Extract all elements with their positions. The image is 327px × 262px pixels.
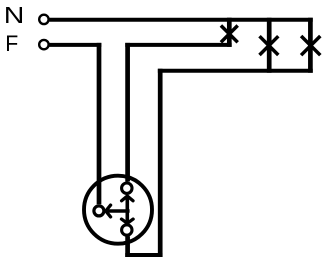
switch S1 arrow left xyxy=(106,205,111,217)
terminal N xyxy=(39,15,48,24)
wire right lamp branch vertical xyxy=(308,18,313,73)
wire lamp X1 stub vertical xyxy=(227,18,232,47)
lamp X3 xyxy=(301,36,320,55)
wire F line xyxy=(49,43,101,47)
switch S1 bottom terminal xyxy=(122,225,132,235)
lamp X2 xyxy=(260,36,279,55)
wire lamp X2 branch vertical xyxy=(267,18,272,73)
svg-text:F: F xyxy=(5,31,18,56)
switch S1 arrow down xyxy=(122,219,134,223)
wire bottom run to switch xyxy=(125,253,162,257)
wire rail-to-bottom vertical xyxy=(158,69,163,257)
switch S1 actuator arms xyxy=(107,196,130,223)
switch S1 body xyxy=(84,176,152,244)
lamp X1 xyxy=(221,26,238,43)
wire lamp bottom rail xyxy=(158,69,313,73)
wire from switch top terminal to lamp X1 xyxy=(125,43,231,47)
wire N line xyxy=(49,18,312,22)
wire switch top terminal vertical xyxy=(125,43,130,182)
terminal F xyxy=(39,40,48,49)
switch S1 top terminal xyxy=(122,183,132,193)
svg-text:N: N xyxy=(4,2,25,28)
switch S1 arrow up xyxy=(122,196,133,201)
wire F drop vertical to switch left terminal xyxy=(97,43,102,204)
wire switch bottom terminal vertical xyxy=(125,236,130,257)
switch S1 left terminal xyxy=(94,206,104,216)
